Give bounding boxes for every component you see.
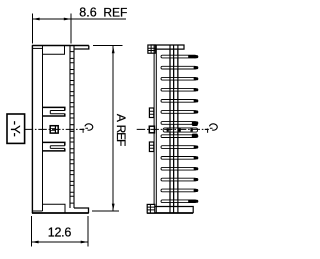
top cap — [150, 45, 184, 49]
dim 12.6 extension lines — [31, 216, 88, 247]
dim A REF extension lines — [92, 45, 123, 211]
pin 10 body — [161, 156, 198, 159]
key upper tall tip — [192, 122, 198, 126]
pin 1 retention mark — [188, 55, 194, 58]
pin 6 body — [161, 110, 198, 113]
cavity ceiling — [43, 46, 65, 54]
bottom board clip — [147, 204, 155, 213]
polarizing key front view — [50, 126, 58, 133]
top board clip — [148, 45, 155, 53]
pin 4 body — [161, 88, 198, 91]
svg-text:12.6: 12.6 — [48, 226, 72, 240]
left wall bottom step — [32, 210, 42, 212]
pin guide verticals — [170, 45, 178, 213]
upper contact latch — [43, 107, 65, 116]
svg-text:REF: REF — [103, 5, 127, 19]
lower side clip — [149, 142, 153, 152]
dim 8.6 REF extension lines — [32, 14, 71, 44]
centerline symbol left — [80, 124, 93, 133]
pin 3 body — [161, 77, 198, 80]
polarizing key body bar — [163, 128, 197, 132]
pin 11 body — [161, 167, 198, 170]
dim 12.6 line — [31, 241, 88, 243]
cavity floor — [43, 204, 66, 212]
inner wall vertical — [42, 46, 44, 212]
dim A REF line — [112, 46, 114, 211]
pin slot rungs in wafer wall — [70, 52, 74, 204]
svg-text:REF: REF — [114, 125, 128, 147]
centerline right view — [137, 128, 207, 130]
wafer pin-wall verticals — [69, 46, 71, 209]
left wall verticals — [154, 45, 156, 213]
centerline symbol right — [205, 124, 218, 133]
svg-text:-Y-: -Y- — [8, 121, 23, 137]
inner top wall underside — [33, 47, 42, 49]
pin 13 body — [161, 189, 198, 192]
arrowheads A REF — [112, 46, 115, 53]
key cross marks — [167, 129, 169, 132]
pin 8 body — [161, 135, 198, 138]
arrowheads 8.6 — [32, 18, 39, 21]
centerline left view — [25, 128, 83, 130]
pin 14 retention mark — [188, 200, 194, 203]
pin 7 body — [161, 121, 198, 124]
bottom foot — [147, 207, 193, 214]
polarizing key side view — [149, 126, 154, 133]
bottom foot right — [74, 208, 89, 213]
top flange right — [74, 46, 89, 50]
pin 1 body — [161, 55, 198, 58]
pin 14 body — [161, 200, 198, 203]
redraw guide verticals over pins — [170, 50, 178, 206]
svg-text:8.6: 8.6 — [79, 5, 96, 19]
pin 9 body — [161, 146, 198, 149]
wafer body outline — [32, 46, 89, 214]
pin 5 body — [161, 99, 198, 102]
pin 12 body — [161, 178, 198, 181]
lower contact latch — [43, 142, 65, 151]
upper side clip — [149, 108, 153, 118]
dim 8.6 REF line — [32, 18, 126, 20]
pin 2 body — [161, 66, 198, 69]
svg-text:A: A — [114, 114, 128, 122]
arrowheads 12.6 — [31, 241, 38, 244]
datum box — [7, 114, 25, 143]
